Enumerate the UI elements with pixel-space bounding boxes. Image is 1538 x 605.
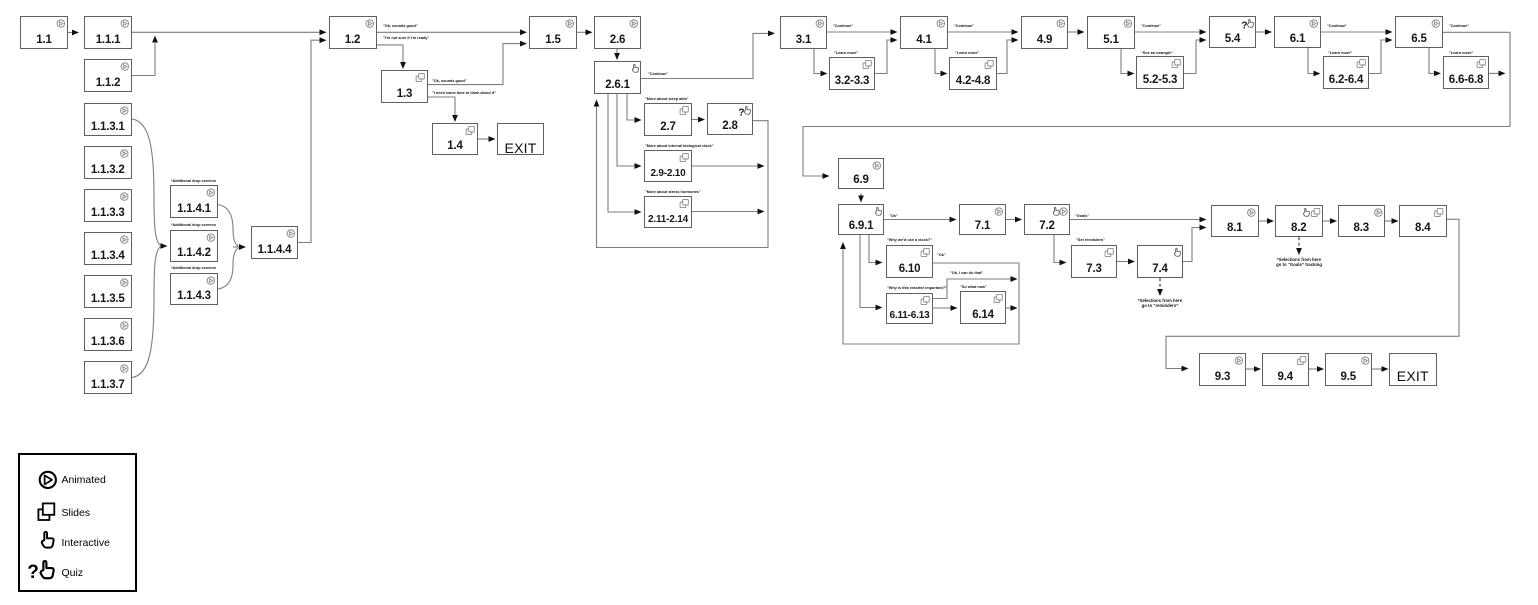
box 9.4 — [1262, 353, 1310, 386]
label "More about sleep aids" — [645, 97, 688, 101]
box 6.2-6.4 — [1323, 56, 1369, 89]
box 1.1 — [20, 16, 68, 49]
label "I’m not sure if I’m ready" — [383, 36, 429, 40]
box 6.1 — [1274, 16, 1321, 48]
wire 3.1 to 3.2-3.3 — [814, 49, 828, 76]
box 1.1.1 — [84, 16, 132, 49]
wire 1.4 to EXIT — [478, 136, 496, 142]
box 6.9.1 — [838, 204, 884, 236]
box 1.1.3.6 — [84, 318, 132, 351]
label "Continue" — [954, 24, 974, 28]
label "Ok, I can do that" — [950, 271, 983, 275]
label "Learn more" — [1328, 51, 1352, 55]
wire 6.14 join — [1006, 305, 1018, 311]
box 6.5 — [1395, 16, 1443, 48]
wire 4.1 to 4.2-4.8 — [935, 49, 948, 76]
note *Selections from here — [1138, 298, 1182, 309]
box 2.8 — [707, 103, 753, 135]
legend icon animated — [18, 453, 138, 593]
box 1.1.3.7 — [84, 361, 132, 394]
wire 6.9.1 to 6.11-6.13 — [860, 235, 883, 310]
svg-text:?: ? — [1241, 20, 1247, 31]
wire 5.4 to 6.1 — [1256, 29, 1272, 35]
box 8.4 — [1399, 205, 1447, 237]
label *Additional drop screens — [171, 266, 216, 270]
label "I need some time to think abo — [432, 91, 496, 95]
box 1.1.3.4 — [84, 232, 132, 265]
label "Learn more" — [955, 51, 979, 55]
box 1.4 — [432, 123, 478, 155]
label "Continue" — [1449, 24, 1469, 28]
box EXIT1 — [497, 123, 544, 155]
box 2.6 — [594, 16, 641, 49]
wire return to 2.6.1 — [594, 100, 768, 248]
box 7.4 — [1137, 245, 1183, 278]
wire 2.6.1 to 2.11-2.14 — [608, 94, 642, 215]
label "Ok" — [937, 253, 946, 257]
wire 7.4 to 8.1 — [1183, 225, 1207, 262]
wire 2.6.1 to 2.7 — [627, 94, 642, 123]
wire 1.2 to 1.3 — [377, 45, 406, 69]
label "Continue" — [648, 72, 668, 76]
box 1.1.4.2 — [170, 230, 218, 263]
box 2.11-2.14 — [644, 196, 692, 228]
wire 2.6 to 2.6.1 — [614, 49, 620, 60]
wire 8.1 to 8.2 — [1259, 218, 1275, 224]
wire 2.7 to 2.8 — [692, 117, 705, 123]
wire 1.3 to 1.5 — [428, 41, 527, 85]
label "Why is this reactive importan — [887, 286, 947, 290]
label "Set reminders" — [1076, 238, 1105, 242]
wire 6.9.1 to 6.10 — [869, 235, 883, 265]
wire 4.9 to 5.1 — [1068, 29, 1085, 35]
box 4.1 — [900, 16, 948, 49]
box 8.2 — [1275, 205, 1323, 237]
legend label interactive — [62, 537, 110, 549]
box 2.7 — [644, 103, 692, 136]
wire 9.4 to 9.5 — [1309, 366, 1324, 372]
box 2.6.1 — [594, 61, 641, 94]
box 6.9 — [838, 158, 884, 189]
wire 6.11-6.13 to 6.14 — [933, 305, 958, 311]
dashed 8.2 note — [1296, 237, 1302, 255]
wire 7.3 to 7.4 — [1117, 259, 1135, 265]
svg-text:?: ? — [738, 107, 744, 118]
label "Learn more" — [1449, 51, 1473, 55]
wire 6.11-6.13 join — [933, 276, 1018, 298]
box 5.4 — [1209, 16, 1256, 48]
wire 4.1 to 4.9 — [948, 29, 1019, 35]
legend box — [18, 453, 137, 592]
dashed 7.4 note — [1157, 278, 1163, 296]
box 8.1 — [1211, 205, 1259, 237]
box 8.3 — [1338, 205, 1386, 237]
label "More about internal biologica — [645, 144, 713, 148]
wire 3.1 to 4.1 — [827, 29, 898, 35]
box 6.11-6.13 — [886, 293, 933, 325]
label "Ok" — [889, 214, 898, 218]
wire 6.5 to 6.6-6.8 — [1429, 48, 1441, 76]
wire 2.6.1 to 2.9-2.10 — [617, 94, 642, 169]
box 7.2 — [1024, 204, 1070, 236]
wire 7.2 to 7.3 — [1054, 235, 1067, 265]
box 9.3 — [1199, 353, 1246, 386]
wire 6.10 loop to 6.9.1 — [840, 242, 1019, 344]
legend label animated — [62, 474, 106, 486]
box 1.1.3.2 — [84, 146, 132, 179]
box 6.14 — [960, 291, 1006, 324]
label "Why we’d use a clock?" — [887, 238, 932, 242]
wire 6.9.1 to 7.1 — [884, 217, 957, 223]
label "See an example" — [1141, 51, 1173, 55]
box 1.1.3.5 — [84, 275, 132, 308]
brace 1.1.3.1 to 1.1.4.2 — [132, 119, 168, 378]
wire 1.1.4.4 to 1.2 — [298, 37, 327, 242]
note *Selections from here — [1276, 257, 1322, 268]
svg-text:?: ? — [27, 562, 39, 583]
box 5.2-5.3 — [1136, 56, 1184, 89]
legend label slides — [62, 507, 91, 519]
wire 1.1 to 1.1.1 — [68, 30, 79, 36]
label "Continue" — [1327, 24, 1347, 28]
label "Continue" — [833, 24, 853, 28]
wire 7.2 to 8.1 — [1070, 217, 1207, 223]
box 6.10 — [886, 245, 933, 278]
wire 4.2-4.8 to 4.9 — [997, 37, 1019, 73]
wire 1.1.2 up-join — [132, 36, 158, 76]
wire 2.11-2.14 join — [692, 209, 765, 215]
box 1.1.4.4 — [251, 226, 298, 259]
legend icon interactive — [42, 532, 54, 548]
wire 6.5 big loop to 6.9 — [803, 32, 1510, 179]
wire 8.2 to 8.3 — [1323, 218, 1338, 224]
wire 2.8 elbow — [753, 121, 768, 248]
label "Goals" — [1075, 214, 1089, 218]
box 7.1 — [959, 204, 1006, 236]
box 1.1.3.1 — [84, 103, 132, 136]
box 1.1.3.3 — [84, 189, 132, 222]
box 4.2-4.8 — [949, 57, 997, 90]
legend icon slides — [38, 503, 54, 520]
wire 2.9-2.10 join — [692, 163, 765, 169]
box 1.3 — [381, 70, 428, 103]
label "Learn more" — [834, 51, 858, 55]
box 3.1 — [780, 16, 827, 49]
wire 6.9 to 6.9.1 — [858, 193, 864, 203]
wire 9.3 to 9.4 — [1246, 366, 1261, 372]
wire 6.1 to 6.2-6.4 — [1308, 48, 1321, 76]
wire 5.1 to 5.4 — [1135, 29, 1207, 35]
label "Continue" — [1141, 24, 1161, 28]
box 3.2-3.3 — [829, 57, 875, 90]
wire 1.1.1 to 1.2 — [132, 29, 327, 35]
box 9.5 — [1325, 353, 1373, 386]
label *Additional drop screens — [171, 179, 216, 183]
label "Ok, sounds good" — [432, 79, 467, 83]
wire 8.3 to 8.4 — [1385, 218, 1399, 224]
box 1.1.4.1 — [170, 185, 218, 218]
wire 1.2 to 1.5 — [377, 29, 528, 35]
brace 1.1.4.x to 1.1.4.4 — [218, 205, 246, 290]
wire 2.6.1 to 3.1 — [641, 31, 775, 79]
box 4.9 — [1021, 16, 1068, 49]
wire 5.1 to 5.2-5.3 — [1121, 49, 1135, 76]
box 2.9-2.10 — [644, 150, 692, 182]
label "Ok, sounds good" — [383, 24, 418, 28]
wire 7.1 to 7.2 — [1006, 217, 1022, 223]
legend label quiz — [62, 567, 84, 579]
wire 1.5 to 2.6 — [577, 29, 593, 35]
box 1.1.2 — [84, 59, 132, 92]
wire 8.4 loop to 9.3 — [1166, 219, 1459, 371]
box 1.5 — [529, 16, 577, 49]
wire 1.3 to 1.4 — [428, 97, 458, 122]
box 7.3 — [1071, 245, 1117, 278]
wire 6.2-6.4 to 6.5 — [1369, 37, 1393, 73]
wire 6.1 to 6.5 — [1321, 29, 1393, 35]
label "More about stress hormones" — [645, 190, 701, 194]
box EXIT2 — [1389, 353, 1437, 386]
box 1.2 — [329, 16, 377, 49]
wire 3.2-3.3 to 4.1 — [875, 37, 898, 73]
box 5.1 — [1087, 16, 1135, 49]
box 1.1.4.3 — [170, 273, 218, 306]
label "So what now" — [960, 285, 987, 289]
wire 6.6-6.8 join — [1489, 71, 1506, 77]
label *Additional drop screens — [171, 223, 216, 227]
wire 9.5 to EXIT — [1372, 366, 1389, 372]
box 6.6-6.8 — [1443, 56, 1489, 89]
wire 5.2-5.3 to 5.4 — [1184, 37, 1207, 73]
